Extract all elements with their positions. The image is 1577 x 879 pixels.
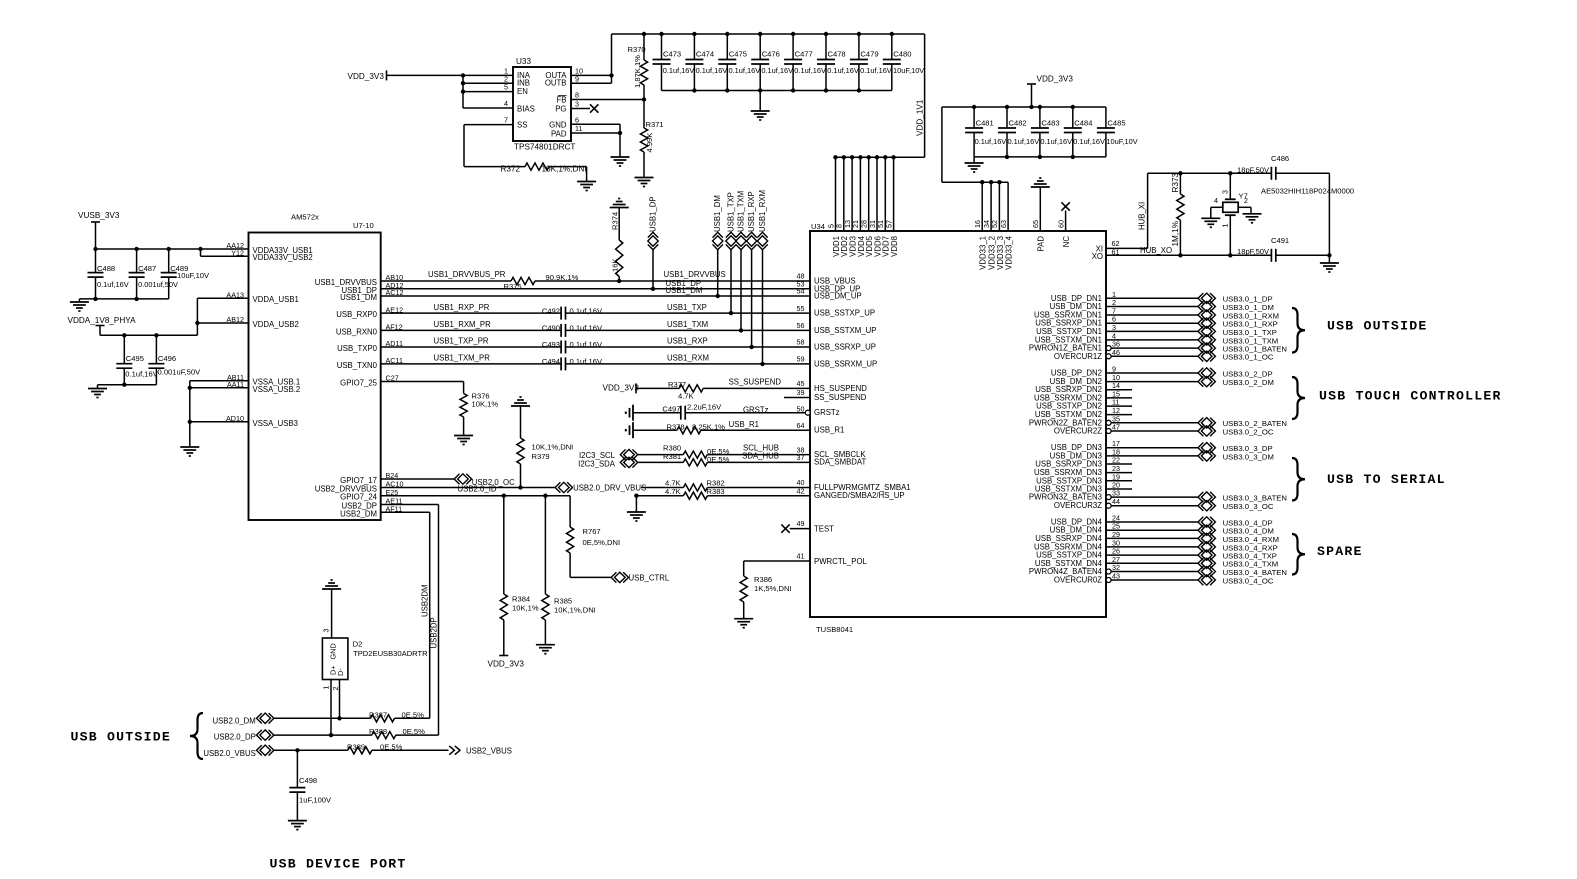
- svg-text:XO: XO: [1092, 252, 1103, 261]
- svg-text:D-: D-: [336, 668, 345, 676]
- svg-text:I2C3_SDA: I2C3_SDA: [578, 460, 616, 469]
- capacitor C488: [95, 249, 97, 273]
- off-page connector USB3.0_3_DM: [1201, 451, 1212, 461]
- svg-text:USB1_RXP_PR: USB1_RXP_PR: [434, 303, 490, 312]
- svg-text:0.1uf,16V: 0.1uf,16V: [97, 280, 129, 289]
- pin VDD6 (pin 31) of U34: [876, 157, 878, 231]
- off-page connector USB3.0_4_DP: [1201, 517, 1212, 527]
- svg-text:OVERCUR1Z: OVERCUR1Z: [1054, 352, 1102, 361]
- wire net SCL_HUB (row 38): [638, 454, 684, 456]
- wire net USB2.0_VBUS row: [274, 749, 348, 751]
- svg-text:6: 6: [575, 115, 579, 124]
- crystal pin 4 wire + ground: [1211, 206, 1223, 208]
- crystal pin 2 wire + ground: [1238, 206, 1251, 208]
- bubble on GRSTz pin 50: [805, 410, 810, 415]
- svg-text:USB_TXN0: USB_TXN0: [337, 361, 378, 370]
- wire FB to R370/R371 junction: [571, 99, 644, 101]
- off-page connector USB3.0_1_RXP: [1201, 318, 1212, 328]
- svg-text:3: 3: [322, 629, 331, 633]
- svg-text:10K,1%,DNI: 10K,1%,DNI: [542, 164, 587, 173]
- svg-text:TPS74801DRCT: TPS74801DRCT: [514, 143, 575, 152]
- off-page connector USB3.0_1_TXP: [1201, 326, 1212, 336]
- svg-text:USB1_TXM_PR: USB1_TXM_PR: [434, 354, 491, 363]
- pin XI (62) wire HUB_XI: [1106, 247, 1148, 249]
- capacitor C474 0.1uf,16V: [693, 34, 695, 60]
- svg-text:U34: U34: [811, 222, 825, 231]
- svg-text:16: 16: [973, 220, 982, 228]
- pin VDD7 (pin 51) of U34: [884, 157, 886, 231]
- svg-text:0.1uf,16V: 0.1uf,16V: [860, 66, 892, 75]
- wire net USB1_TXP_PR (row 58): [381, 346, 561, 348]
- svg-text:GRSTz: GRSTz: [743, 405, 769, 414]
- pin VDD4 (pin 21) of U34: [859, 157, 861, 231]
- svg-text:USB1_RXM: USB1_RXM: [667, 354, 709, 363]
- wire VSSA_USB3: [190, 421, 249, 423]
- svg-text:R389: R389: [347, 742, 365, 751]
- svg-text:USB1_DM: USB1_DM: [666, 286, 703, 295]
- off-page connector I2C3_SCL: [624, 449, 635, 459]
- svg-text:47: 47: [1112, 423, 1120, 432]
- off-page connector USB_CTRL: [615, 572, 626, 582]
- svg-text:USB_RXN0: USB_RXN0: [336, 327, 378, 336]
- svg-text:USB2.0_ID: USB2.0_ID: [458, 485, 497, 494]
- svg-text:SDA_SMBDAT: SDA_SMBDAT: [814, 458, 867, 467]
- ground below VSSA: [180, 446, 199, 448]
- capacitor C480 10uF,10V: [891, 34, 893, 60]
- svg-text:0.1uf,16V: 0.1uf,16V: [729, 66, 761, 75]
- ESD diode D2 TPD2EUSB30ADRTR: [322, 638, 348, 680]
- svg-text:0.1uf,16V: 0.1uf,16V: [663, 66, 695, 75]
- svg-text:R381: R381: [663, 452, 681, 461]
- ground flag (left) for R378: [632, 422, 634, 438]
- pin VDD2 (pin 8) of U34: [843, 157, 845, 231]
- brace USB OUTSIDE (right): [1292, 308, 1305, 353]
- svg-text:USB1_DM: USB1_DM: [713, 195, 722, 232]
- svg-text:VDD33_1: VDD33_1: [979, 236, 988, 270]
- ground below U33 GND: [611, 156, 630, 158]
- svg-text:R767: R767: [583, 527, 601, 536]
- resistor R386 1K,5%,DNI: [740, 576, 747, 602]
- capacitor C492 0.1uf,16V (series): [560, 307, 562, 320]
- svg-text:USB_TXP0: USB_TXP0: [337, 344, 378, 353]
- svg-text:R375: R375: [504, 282, 522, 291]
- svg-text:USB2.0_DM: USB2.0_DM: [212, 716, 255, 725]
- off-page connector USB3.0_4_TXP: [1201, 550, 1212, 560]
- svg-text:USB_CTRL: USB_CTRL: [629, 573, 670, 582]
- svg-text:8: 8: [575, 91, 579, 100]
- off-page connector USB2.0_DP: [260, 730, 271, 740]
- svg-text:USB_R1: USB_R1: [814, 426, 844, 435]
- svg-text:USB1_TXM: USB1_TXM: [667, 320, 708, 329]
- svg-text:60: 60: [1056, 220, 1065, 228]
- capacitor C482 0.1uf,16V: [1006, 107, 1008, 128]
- svg-text:C492: C492: [542, 306, 560, 315]
- svg-text:0.1uf,16V: 0.1uf,16V: [570, 306, 603, 315]
- off-page connector USB2.0_DM: [260, 713, 271, 723]
- no-connect X on PG: [590, 104, 598, 112]
- svg-text:18pF,50V: 18pF,50V: [1237, 247, 1270, 256]
- svg-text:USB2.0_DP: USB2.0_DP: [214, 732, 256, 741]
- capacitor C479 0.1uf,16V: [858, 34, 860, 60]
- svg-text:R379: R379: [532, 452, 550, 461]
- svg-text:C484: C484: [1074, 119, 1092, 128]
- svg-text:C479: C479: [860, 50, 878, 59]
- wire SS pin7 to R372: [464, 124, 513, 126]
- svg-text:0E,5%,DNI: 0E,5%,DNI: [583, 538, 621, 547]
- svg-text:C478: C478: [828, 50, 846, 59]
- capacitor C496: [155, 335, 157, 363]
- svg-text:0.1uf,16V: 0.1uf,16V: [975, 137, 1007, 146]
- resistor R389 0E,5%: [348, 747, 372, 754]
- svg-text:HUB_XO: HUB_XO: [1140, 246, 1172, 255]
- svg-text:18pF,50V: 18pF,50V: [1237, 165, 1270, 174]
- off-page connector USB3.0_4_OC: [1201, 575, 1212, 585]
- wire pin 39 stub: [784, 397, 810, 399]
- capacitor C487: [136, 249, 138, 273]
- off-page connector USB3.0_1_DP: [1201, 293, 1212, 303]
- svg-text:R377: R377: [668, 380, 686, 389]
- svg-text:C477: C477: [795, 50, 813, 59]
- svg-text:OUTB: OUTB: [545, 79, 567, 88]
- svg-text:U33: U33: [516, 57, 531, 66]
- wire net USB_R1 (row 64): [633, 429, 677, 431]
- svg-text:USB_RXP0: USB_RXP0: [336, 310, 377, 319]
- pin VDD3 (pin 13) of U34: [851, 157, 853, 231]
- resistor R385 10K,1%,DNI to ground: [544, 496, 546, 594]
- wire PWRCTL_POL (pin 41) to R386: [744, 560, 810, 562]
- svg-text:GPIO7_25: GPIO7_25: [340, 379, 378, 388]
- wire bottom rail 1V8 caps: [98, 384, 157, 386]
- off-page connector USB1_TXM (vertical): [740, 249, 742, 330]
- svg-text:USB2.0_VBUS: USB2.0_VBUS: [203, 749, 255, 758]
- wire net USB1_TXM_PR (row 59): [381, 363, 561, 365]
- svg-text:VDD_3V3: VDD_3V3: [1037, 75, 1074, 84]
- ground below R371: [635, 177, 654, 179]
- svg-text:49: 49: [797, 519, 805, 528]
- svg-text:3: 3: [575, 100, 579, 109]
- svg-text:USB1_RXP: USB1_RXP: [667, 337, 708, 346]
- pin VDD8 (pin 57) of U34: [893, 157, 895, 231]
- svg-text:C490: C490: [542, 324, 560, 333]
- crystal pin 1 wire: [1229, 215, 1231, 255]
- capacitor C493 0.1uf,16V (series): [560, 341, 562, 354]
- wire USB2_DP from AE11: [381, 504, 439, 506]
- wire Y12 jog: [200, 249, 202, 256]
- wire EN from junction: [463, 91, 513, 93]
- svg-text:R384: R384: [512, 595, 530, 604]
- svg-text:USB3.0_1_OC: USB3.0_1_OC: [1223, 353, 1274, 362]
- capacitor C489: [168, 249, 170, 273]
- svg-text:1M,1%: 1M,1%: [1171, 221, 1180, 246]
- wire OUTA: [571, 74, 612, 76]
- svg-text:C482: C482: [1009, 119, 1027, 128]
- wire BIAS from junction: [463, 107, 513, 109]
- resistor R370 1.87K,1%: [643, 34, 645, 60]
- capacitor C495: [123, 335, 125, 363]
- wire VDDA_1V8_PHYA rail: [100, 334, 197, 336]
- wire VDD33_3 pin drop: [998, 182, 1000, 231]
- off-page connector USB3.0_3_DP: [1201, 443, 1212, 453]
- svg-text:BIAS: BIAS: [517, 105, 535, 114]
- svg-text:1: 1: [1221, 224, 1230, 228]
- svg-text:AM572x: AM572x: [291, 213, 319, 222]
- resistor R384 10K,1% to VDD_3V3: [503, 496, 505, 594]
- svg-text:0.1uf,16V: 0.1uf,16V: [1040, 137, 1072, 146]
- ground below R372: [577, 181, 596, 183]
- svg-text:C495: C495: [126, 354, 144, 363]
- svg-text:0.001uF,50V: 0.001uF,50V: [158, 368, 202, 377]
- capacitor C494 0.1uf,16V (series): [560, 357, 562, 370]
- wire net USB2.0_ID (E25 row): [381, 495, 570, 497]
- resistor R376 10K,1%: [460, 394, 467, 418]
- wire net USB2.0_DRV_VBUS (AC10 row / pin 40): [381, 487, 556, 489]
- wire VDD33_4 pin drop: [1007, 182, 1009, 231]
- svg-text:PAD: PAD: [1037, 236, 1046, 252]
- brace SPARE: [1292, 534, 1305, 575]
- svg-text:39: 39: [797, 388, 805, 397]
- off-page connector USB3.0_2_BATEN: [1201, 418, 1212, 428]
- wire VSSA vertical: [189, 381, 191, 447]
- capacitor C483 0.1uf,16V: [1039, 107, 1041, 128]
- svg-text:USB2_VBUS: USB2_VBUS: [466, 746, 512, 755]
- svg-text:8.25K,1%: 8.25K,1%: [692, 422, 725, 431]
- svg-text:58: 58: [797, 338, 805, 347]
- svg-text:USB2.0_DRV_VBUS: USB2.0_DRV_VBUS: [573, 483, 646, 492]
- svg-text:C494: C494: [542, 357, 560, 366]
- svg-text:USB1_RXP: USB1_RXP: [747, 191, 756, 232]
- wire net USB1_DM (row 54): [381, 295, 810, 297]
- svg-text:0.1uf,16V: 0.1uf,16V: [570, 357, 603, 366]
- wire VDD_3V3 rail: [942, 106, 1106, 108]
- svg-text:2.2uF,16V: 2.2uF,16V: [687, 402, 722, 411]
- wire net SDA_HUB (row 37): [638, 461, 684, 463]
- off-page connector USB1_TXP (vertical): [730, 249, 732, 313]
- svg-text:R387: R387: [369, 710, 387, 719]
- svg-text:USB3.0_2_OC: USB3.0_2_OC: [1223, 427, 1274, 436]
- IC U7-10 AM572x: [249, 233, 381, 521]
- svg-text:61: 61: [1112, 247, 1120, 256]
- svg-text:59: 59: [797, 355, 805, 364]
- resistor R387 0E,5%: [371, 715, 395, 722]
- svg-text:TPD2EUSB30ADRTR: TPD2EUSB30ADRTR: [353, 649, 428, 658]
- off-page connector USB3.0_1_BATEN: [1201, 343, 1212, 353]
- svg-text:45: 45: [797, 379, 805, 388]
- svg-text:GANGED/SMBA2/HS_UP: GANGED/SMBA2/HS_UP: [814, 491, 905, 500]
- svg-text:C480: C480: [893, 50, 911, 59]
- IC U34 TUSB8041: [810, 231, 1106, 617]
- off-page connector USB3.0_4_BATEN: [1201, 566, 1212, 576]
- wire VDD_1V1 top rail: [612, 33, 925, 35]
- svg-text:C486: C486: [1271, 154, 1289, 163]
- svg-text:USB_DM_UP: USB_DM_UP: [814, 292, 862, 301]
- svg-text:VDD_1V1: VDD_1V1: [916, 99, 925, 136]
- svg-text:GRSTz: GRSTz: [814, 408, 840, 417]
- svg-text:3: 3: [1221, 190, 1230, 194]
- pin TEST (49) stub with no-connect X: [790, 528, 810, 530]
- resistor R375 90.9K,1%: [511, 277, 535, 284]
- svg-text:2: 2: [331, 687, 340, 691]
- capacitor C481 0.1uf,16V: [973, 107, 975, 128]
- ground below C498: [288, 820, 307, 822]
- svg-text:1K,5%,DNI: 1K,5%,DNI: [754, 584, 792, 593]
- svg-text:4.7K: 4.7K: [665, 487, 681, 496]
- svg-text:GND: GND: [549, 120, 567, 129]
- off-page connector USB3.0_1_DM: [1201, 301, 1212, 311]
- svg-text:4: 4: [504, 99, 508, 108]
- brace USB TOUCH CONTROLLER: [1292, 377, 1305, 419]
- capacitor C485 10uF,10V: [1105, 107, 1107, 128]
- D2 pin 3 wire + inverted ground: [322, 588, 341, 590]
- wire VDD33 feed: [941, 107, 943, 182]
- crystal pin 3 wire: [1229, 173, 1231, 199]
- wire net SS_SUSPEND (row 45): [636, 387, 679, 389]
- svg-text:C473: C473: [663, 50, 681, 59]
- brace USB TO SERIAL: [1292, 458, 1305, 501]
- svg-text:USB OUTSIDE: USB OUTSIDE: [71, 729, 171, 744]
- svg-text:PG: PG: [555, 105, 566, 114]
- svg-text:1.87K,1%: 1.87K,1%: [633, 55, 642, 88]
- wire + ground below cap bank: [759, 91, 761, 112]
- svg-text:44: 44: [1112, 497, 1120, 506]
- svg-text:VDD_3V3: VDD_3V3: [603, 384, 640, 393]
- svg-text:4.7K: 4.7K: [678, 391, 694, 400]
- svg-text:VSSA_USB3: VSSA_USB3: [253, 419, 299, 428]
- junction OUTA/OUTB: [609, 73, 613, 77]
- svg-text:EN: EN: [517, 87, 528, 96]
- off-page connector USB1_DM (vertical): [717, 249, 719, 296]
- svg-text:OVERCUR0Z: OVERCUR0Z: [1054, 576, 1102, 585]
- svg-text:TUSB8041: TUSB8041: [816, 625, 853, 634]
- svg-text:42: 42: [797, 486, 805, 495]
- off-page chevrons USB2_VBUS: [449, 746, 454, 755]
- svg-text:C491: C491: [1271, 236, 1289, 245]
- capacitor C491 18pF,50V: [1270, 249, 1272, 262]
- svg-text:56: 56: [797, 321, 805, 330]
- svg-text:USB_SSRXP_UP: USB_SSRXP_UP: [814, 343, 876, 352]
- wire net USB1_RXP_PR (row 55): [381, 312, 561, 314]
- svg-text:52: 52: [990, 220, 999, 228]
- svg-text:41: 41: [797, 552, 805, 561]
- resistor R371 4.99K: [643, 100, 645, 129]
- svg-text:90.9K,1%: 90.9K,1%: [546, 273, 579, 282]
- svg-text:0.1uf,16V: 0.1uf,16V: [761, 66, 793, 75]
- off-page connector USB3.0_4_RXP: [1201, 542, 1212, 552]
- svg-text:USB1_TXP: USB1_TXP: [727, 192, 736, 232]
- svg-text:USB1_RXM: USB1_RXM: [758, 190, 767, 232]
- svg-text:R383: R383: [707, 487, 725, 496]
- resistor R380 0E,5%: [683, 451, 707, 458]
- resistor R378 8.25K,1%: [677, 427, 701, 434]
- ground tap on pin42 row: [635, 496, 637, 512]
- D2 pin 1 wire (D+): [330, 680, 332, 736]
- svg-text:16K: 16K: [611, 258, 620, 272]
- wire net USB2.0_DP row: [274, 734, 372, 736]
- wire AB12: [197, 322, 248, 324]
- svg-text:VDDA33V_USB2: VDDA33V_USB2: [253, 253, 313, 262]
- svg-text:VDDA_USB2: VDDA_USB2: [253, 320, 299, 329]
- off-page connector USB1_RXM (vertical): [762, 249, 764, 364]
- svg-text:C493: C493: [542, 340, 560, 349]
- svg-text:USB1_RXM_PR: USB1_RXM_PR: [434, 320, 492, 329]
- svg-text:11: 11: [575, 124, 582, 133]
- svg-text:SDA_HUB: SDA_HUB: [742, 451, 779, 460]
- wire VDD_3V3 to U33 inputs: [387, 74, 514, 76]
- svg-text:OVERCUR2Z: OVERCUR2Z: [1054, 427, 1102, 436]
- svg-text:37: 37: [797, 453, 805, 462]
- svg-text:U7-10: U7-10: [353, 221, 374, 230]
- svg-text:USB1_DP: USB1_DP: [649, 196, 658, 232]
- capacitor C477 0.1uf,16V: [792, 34, 794, 60]
- capacitor C476 0.1uf,16V: [759, 34, 761, 60]
- off-page connector I2C3_SDA: [624, 457, 635, 467]
- junction dots U33 input: [461, 73, 465, 77]
- svg-text:USB1_DM: USB1_DM: [340, 293, 377, 302]
- svg-text:USB3.0_3_OC: USB3.0_3_OC: [1223, 502, 1274, 511]
- svg-text:PWRCTL_POL: PWRCTL_POL: [814, 557, 868, 566]
- svg-text:R385: R385: [554, 597, 572, 606]
- ground below R386: [734, 618, 753, 620]
- svg-text:0E,5%: 0E,5%: [707, 455, 730, 464]
- svg-text:55: 55: [797, 304, 805, 313]
- wire net USB2.0_OC (B24 row): [381, 478, 455, 480]
- svg-text:C488: C488: [97, 264, 115, 273]
- svg-text:R374: R374: [611, 212, 620, 230]
- wire bottom rail VUSB caps: [79, 298, 168, 300]
- svg-text:57: 57: [884, 220, 893, 228]
- svg-text:10uF,10V: 10uF,10V: [177, 271, 210, 280]
- svg-text:USB2DP: USB2DP: [430, 617, 439, 648]
- svg-text:7: 7: [504, 116, 508, 125]
- off-page connector USB3.0_4_DM: [1201, 525, 1212, 535]
- resistor R383 4.7K: [683, 492, 707, 499]
- svg-text:43: 43: [1112, 572, 1120, 581]
- resistor R388 0E,5%: [372, 732, 396, 739]
- svg-text:0.1uf,16V: 0.1uf,16V: [570, 324, 603, 333]
- svg-text:0.1uf,16V: 0.1uf,16V: [696, 66, 728, 75]
- svg-text:USB DEVICE PORT: USB DEVICE PORT: [270, 857, 407, 872]
- svg-text:64: 64: [797, 421, 805, 430]
- svg-text:USB TOUCH CONTROLLER: USB TOUCH CONTROLLER: [1319, 388, 1502, 403]
- svg-text:NC: NC: [1062, 236, 1071, 248]
- svg-text:VSSA_USB.2: VSSA_USB.2: [253, 385, 301, 394]
- IC U33 TPS74801DRCT: [513, 67, 571, 141]
- wire OUTB: [571, 82, 612, 84]
- off-page connector USB3.0_1_TXM: [1201, 335, 1212, 345]
- off-page connector USB2.0_OC: [458, 474, 469, 484]
- svg-text:1: 1: [322, 686, 331, 690]
- svg-text:GND: GND: [328, 643, 337, 659]
- off-page connector USB3.0_3_OC: [1201, 501, 1212, 511]
- wire VSSA_USB.1: [190, 380, 249, 382]
- ground below VUSB cap bank: [78, 299, 80, 302]
- svg-text:C485: C485: [1107, 119, 1125, 128]
- svg-text:0.1uf,16V: 0.1uf,16V: [1073, 137, 1105, 146]
- wire net USB1_DP (row 53): [381, 288, 810, 290]
- wire INB from junction: [463, 82, 513, 84]
- wire VDD33_1 pin drop: [981, 182, 983, 231]
- capacitor C486 18pF,50V: [1270, 167, 1272, 180]
- off-page connector USB3.0_4_RXM: [1201, 533, 1212, 543]
- off-page connector USB2.0_VBUS: [260, 745, 271, 755]
- pin VDD5 (pin 28) of U34: [868, 157, 870, 231]
- svg-text:USB_SSTXM_UP: USB_SSTXM_UP: [814, 326, 876, 335]
- resistor R382 4.7K: [683, 484, 707, 491]
- resistor R374 16K (pullup to gnd flag): [610, 207, 629, 209]
- wire USB2_DM from AF11: [381, 511, 430, 513]
- svg-text:AE5032HIH118P024M0000: AE5032HIH118P024M0000: [1261, 187, 1354, 196]
- svg-text:0.1uf,16V: 0.1uf,16V: [125, 370, 158, 379]
- svg-text:65: 65: [1031, 220, 1040, 228]
